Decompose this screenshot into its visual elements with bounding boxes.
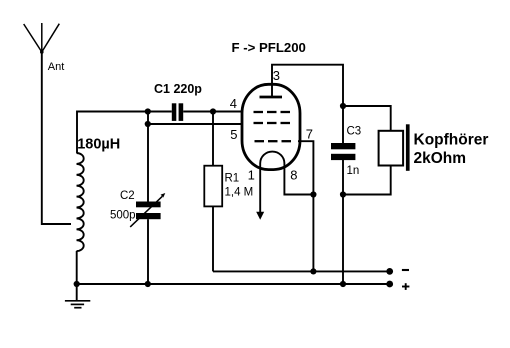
pin 1 arrowhead [256,212,264,220]
svg-text:4: 4 [230,96,237,111]
terminal plus dot [386,281,393,288]
resistor R1 [204,112,222,272]
wire inductor bottom to ground node [76,251,78,284]
svg-text:1n: 1n [347,165,360,177]
svg-text:7: 7 [306,127,313,142]
svg-text:180µH: 180µH [77,136,120,152]
antenna [24,23,60,54]
tube grid row 1 [254,111,291,113]
terminal minus dot [386,268,393,275]
wire C3 lower rail [342,160,344,284]
wire top-left to C1 left plate [77,112,172,154]
svg-text:C2: C2 [120,190,135,202]
svg-text:R1: R1 [225,173,240,185]
wire headphone bottom [343,166,391,195]
wire pin 3 anode lead [272,65,343,143]
svg-text:500p: 500p [110,209,136,221]
svg-text:8: 8 [290,167,297,182]
wire C1 right plate to tube pin 4 [183,111,243,113]
headphone LS1 body [379,131,404,166]
wire pin 5 [148,123,243,125]
wire C2 rail upper [147,112,149,202]
tube U1 PFL200 envelope [242,84,300,169]
wire minus rail [213,270,390,272]
svg-text:2kOhm: 2kOhm [414,150,467,167]
terminal plus sign [402,283,409,290]
terminal minus sign [402,269,409,271]
wire antenna down-lead [42,52,71,224]
inductor L1 180uH [77,153,84,251]
wire pin 1 lead [259,172,261,216]
wire plus rail [77,283,390,285]
svg-text:1: 1 [248,167,255,182]
wire C2 rail lower [147,219,149,284]
svg-text:F -> PFL200: F -> PFL200 [232,40,306,55]
svg-text:5: 5 [230,127,237,142]
svg-text:C3: C3 [347,126,362,138]
tube anode plate [260,96,283,99]
headphone LS1 pole bar [406,124,410,171]
tube cathode [260,152,284,172]
capacitor C1 [172,103,183,121]
wire headphone top [343,106,391,131]
ground [65,284,90,308]
svg-text:Kopfhörer: Kopfhörer [414,132,489,149]
svg-text:3: 3 [273,68,280,83]
svg-text:Ant: Ant [48,61,65,73]
svg-text:C1 220p: C1 220p [154,82,202,96]
capacitor C3 [331,143,355,160]
tube grid row 2 [254,122,291,124]
wire pin 8 lead [284,172,313,195]
svg-text:1,4 M: 1,4 M [225,187,254,199]
wire pin 7 lead [298,141,313,271]
tube grid row 3 [255,140,292,142]
capacitor C2 (variable) [130,193,165,227]
